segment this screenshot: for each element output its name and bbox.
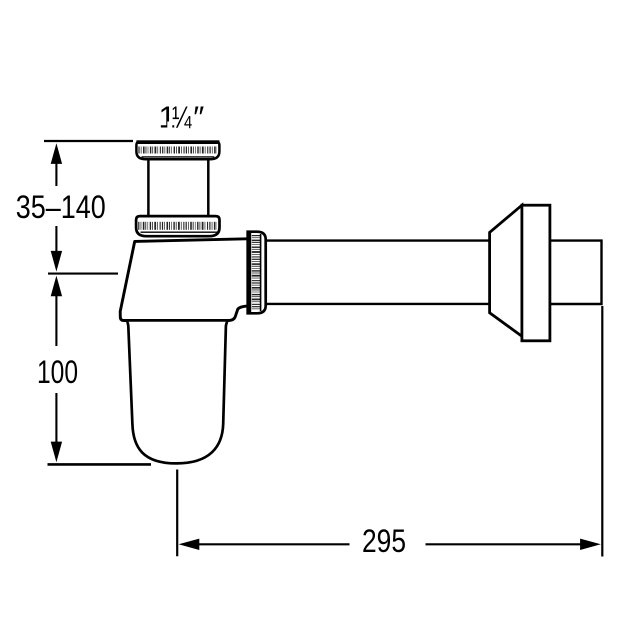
label 295 [362, 523, 406, 559]
extension line middle (shared ref) [48, 273, 118, 275]
lower slip nut [136, 216, 219, 236]
label 100 [37, 354, 78, 390]
top slip nut [136, 140, 219, 159]
dimension 100 arrow up [51, 276, 62, 346]
svg-text:100: 100 [37, 354, 78, 390]
trap cup [127, 322, 227, 464]
wall flange cone [490, 205, 522, 336]
svg-text:35–140: 35–140 [16, 189, 106, 225]
extension line right (295) [601, 306, 603, 557]
wall-side pipe stub [548, 241, 602, 304]
svg-text:295: 295 [362, 523, 406, 559]
dimension 35-140 arrow up [51, 143, 62, 186]
label 35-140 [16, 189, 106, 225]
wall flange cylinder [522, 205, 550, 341]
label 1 1/4 inch [159, 99, 205, 134]
trap head body [120, 239, 252, 321]
svg-text:″: ″ [193, 99, 204, 134]
horizontal outlet pipe [252, 241, 490, 304]
outlet slip nut [248, 232, 266, 314]
svg-text:¼: ¼ [172, 99, 192, 134]
dimension 100 arrow down [51, 393, 62, 462]
dimension 35-140 arrow down [51, 226, 62, 272]
dimension 295 right arrow [426, 539, 601, 550]
extension line top (35-140 upper ref) [44, 140, 133, 142]
extension line left (295) [176, 470, 178, 557]
extension line bottom (100 lower ref) [48, 463, 152, 466]
dimension 295 left arrow [179, 539, 350, 550]
inlet tube [148, 160, 208, 215]
